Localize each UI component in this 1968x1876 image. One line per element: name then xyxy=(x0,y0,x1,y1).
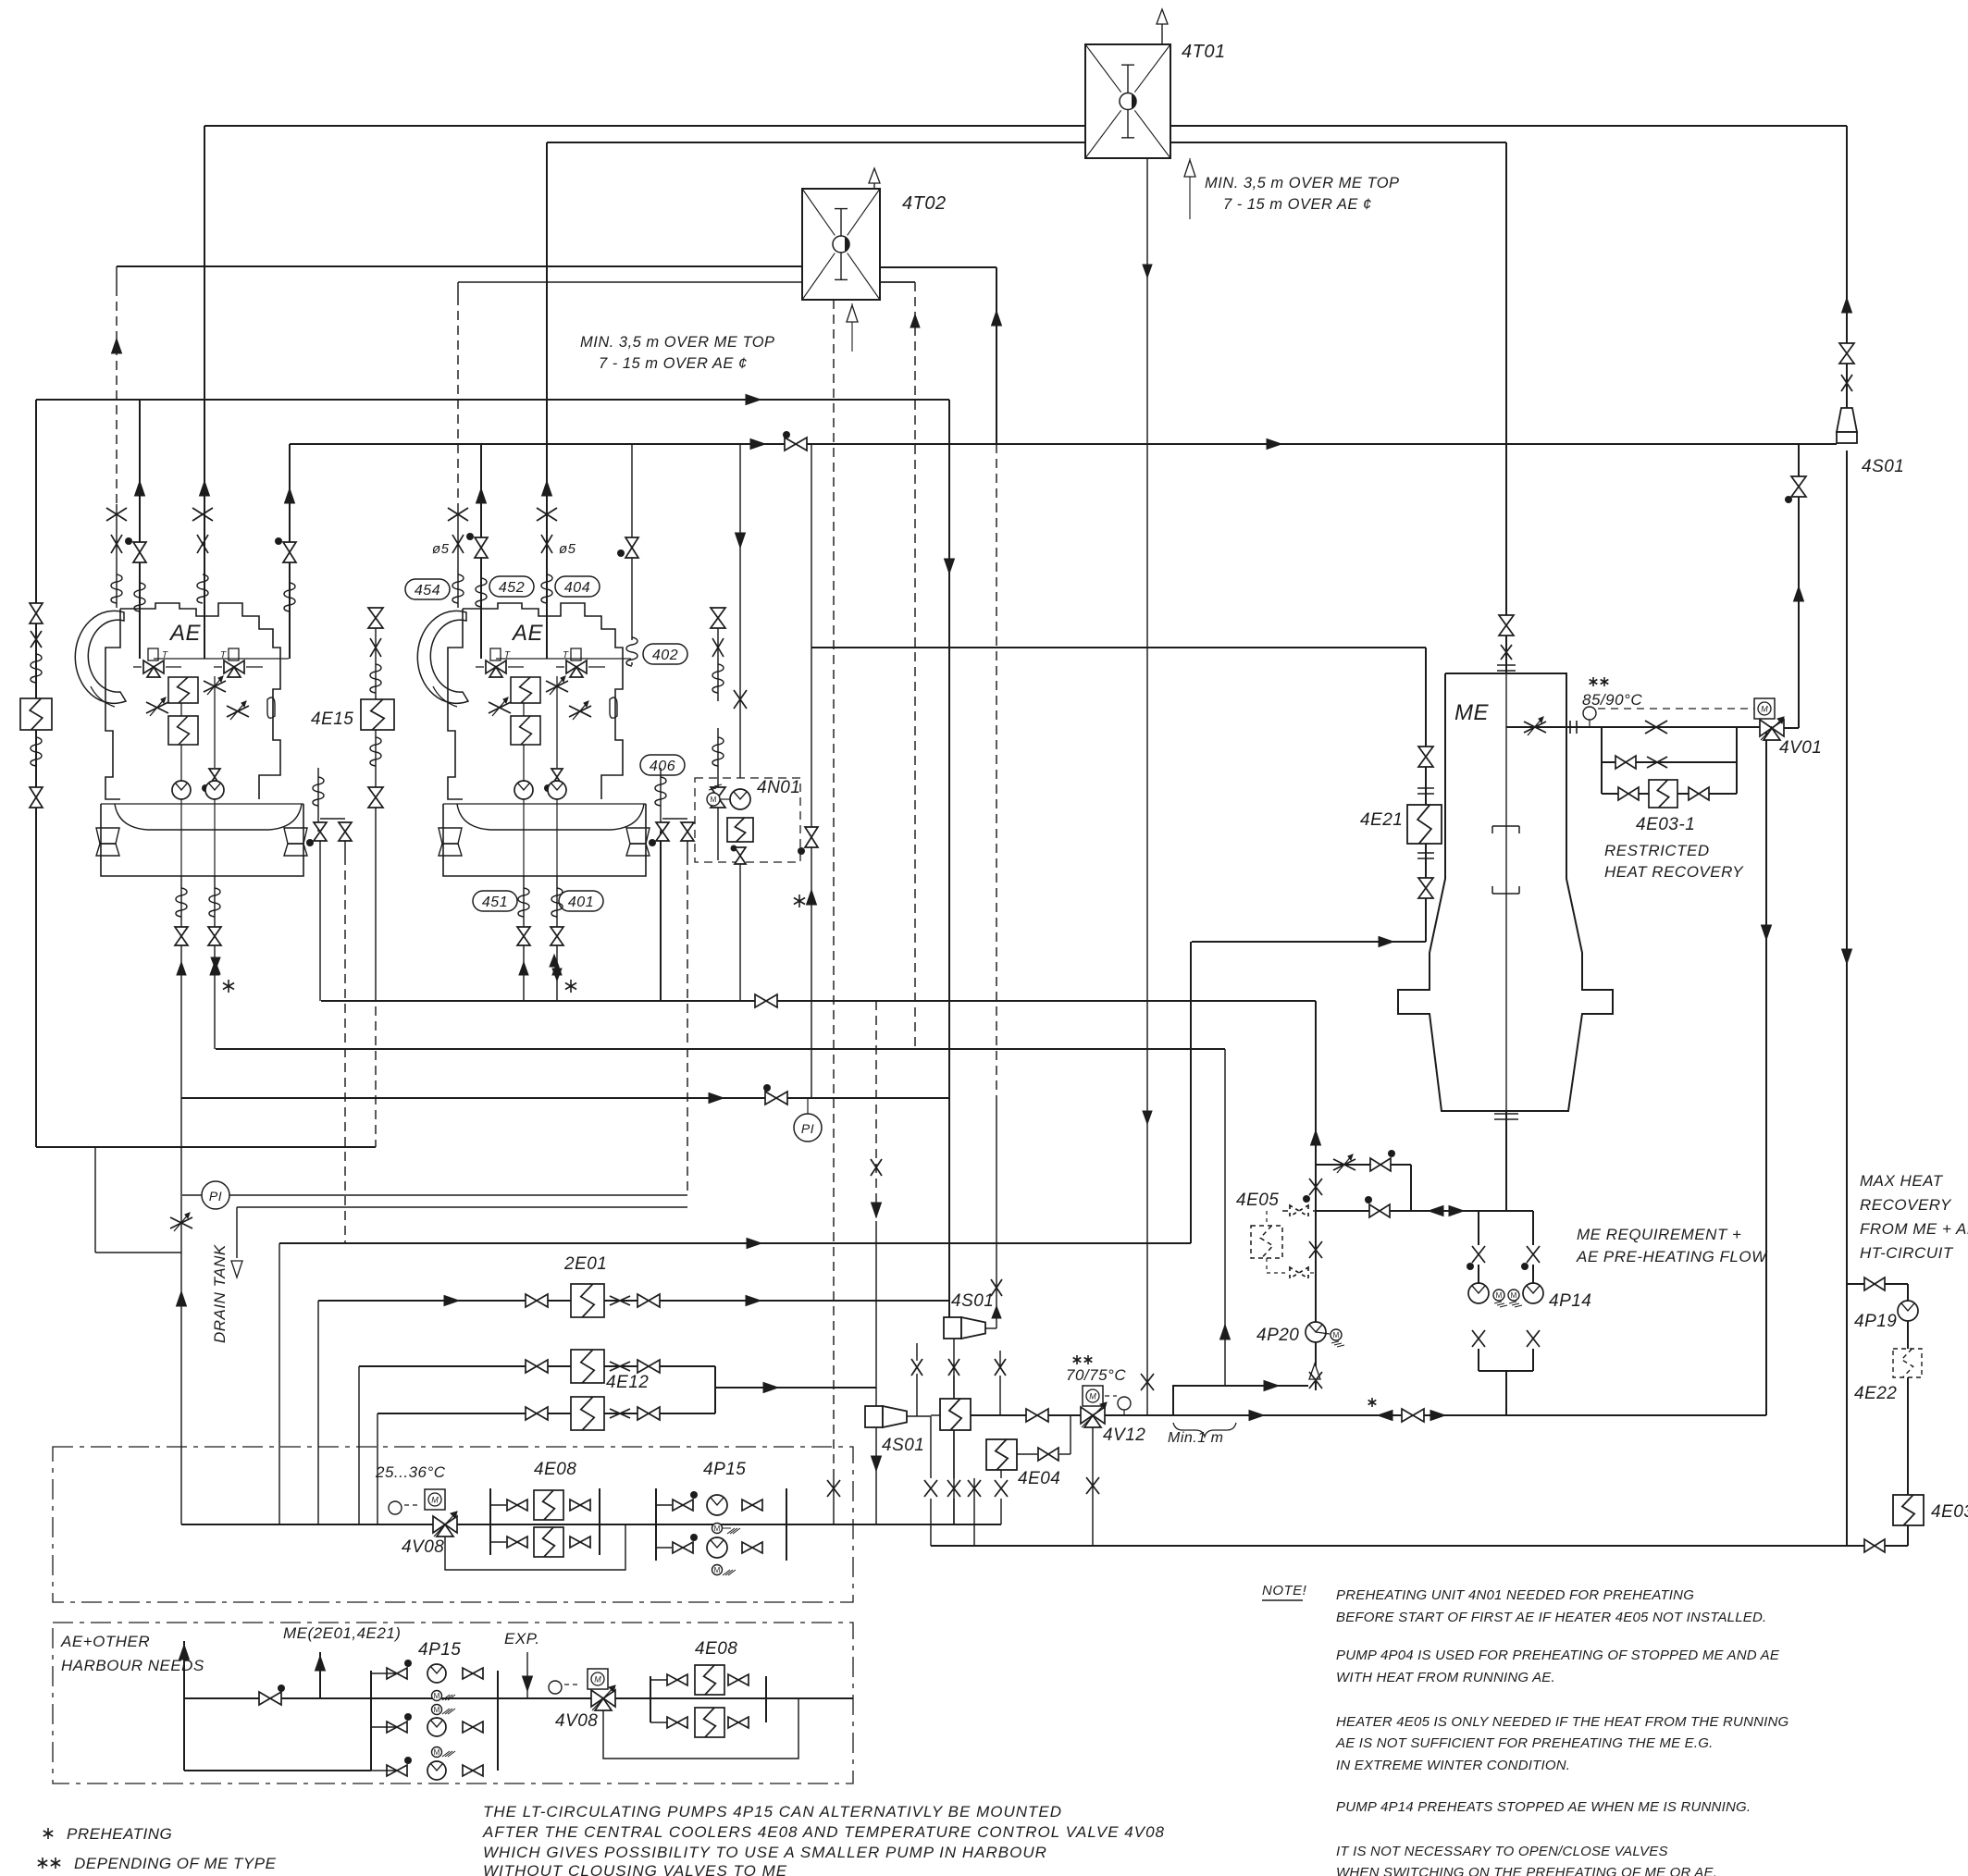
svg-text:ø5: ø5 xyxy=(432,541,450,557)
svg-text:M: M xyxy=(711,796,717,804)
valve pair AE1 preheat xyxy=(211,962,220,974)
AE internal valve xyxy=(209,769,220,777)
wire left drain L x=103 xyxy=(94,1147,96,1253)
svg-text:M: M xyxy=(1511,1291,1517,1300)
svg-text:ME REQUIREMENT +: ME REQUIREMENT + xyxy=(1577,1226,1742,1243)
three-way valve 4V08 xyxy=(433,1516,445,1533)
svg-text:4P19: 4P19 xyxy=(1854,1312,1897,1331)
valve 4E12 A inlet xyxy=(526,1360,537,1373)
separator 4S01 top xyxy=(1837,408,1857,432)
separator 4S01 low xyxy=(865,1405,883,1407)
svg-text:4E05: 4E05 xyxy=(1236,1191,1279,1210)
AE foot left xyxy=(96,828,119,844)
thermometer 4V08 xyxy=(389,1501,402,1514)
label 402 xyxy=(643,644,687,664)
AE internal pipes xyxy=(180,703,182,716)
wire drop x=344 to LT xyxy=(317,1301,319,1524)
svg-text:454: 454 xyxy=(415,583,440,599)
wire 4V01 drop x=1909 xyxy=(1765,728,1767,1415)
AE foot left xyxy=(439,828,462,844)
heat exchanger 4E03 xyxy=(1893,1495,1924,1525)
wire 4T02 bottom stub xyxy=(880,281,915,283)
svg-text:452: 452 xyxy=(499,580,525,596)
wire AE1 pump drain to LT x=196 xyxy=(180,946,182,1524)
valve AE1 fill x=126 xyxy=(106,508,127,521)
wire 4T02 fill drop x=989 (dashed) xyxy=(914,282,916,1049)
flow arrow step xyxy=(1264,1381,1279,1391)
svg-text:M: M xyxy=(1333,1331,1340,1339)
svg-text:4E08: 4E08 xyxy=(534,1460,576,1479)
svg-text:PREHEATING UNIT 4N01 NEEDED FO: PREHEATING UNIT 4N01 NEEDED FOR PREHEATI… xyxy=(1336,1587,1694,1603)
valve AE1 x=151 xyxy=(133,542,146,552)
bracket Min 1 m xyxy=(1173,1423,1236,1437)
separator 4S01 mid xyxy=(944,1316,961,1318)
4E05 dashed valves xyxy=(1290,1205,1308,1278)
svg-text:MIN. 3,5 m OVER ME TOP: MIN. 3,5 m OVER ME TOP xyxy=(580,334,775,351)
wire ME bypass drop x=1731 xyxy=(1601,727,1603,794)
svg-text:PREHEATING: PREHEATING xyxy=(67,1825,172,1843)
wire harbour rows xyxy=(371,1672,397,1674)
valve 2E01 line inlet xyxy=(526,1294,537,1307)
svg-text:4S01: 4S01 xyxy=(951,1291,994,1311)
svg-text:404: 404 xyxy=(564,580,590,596)
AE cooler lower xyxy=(511,716,540,745)
4P20 line valves xyxy=(1309,1179,1322,1195)
wire LT circulating line (y=1648) xyxy=(181,1524,1001,1525)
svg-text:4P20: 4P20 xyxy=(1256,1326,1299,1345)
svg-text:DRAIN TANK: DRAIN TANK xyxy=(211,1244,229,1343)
wire AE1 fill riser x=126 xyxy=(116,266,118,287)
wire ME crank line x=1628 xyxy=(1505,673,1507,1111)
thermometer harbour 4V08 xyxy=(549,1681,562,1694)
wire harbour 4V08 bypass xyxy=(603,1698,798,1759)
svg-text:FROM ME + AE: FROM ME + AE xyxy=(1860,1220,1968,1238)
wire AE2 vent riser x=589 xyxy=(546,142,548,659)
valve riser x=877 xyxy=(805,827,818,837)
preheat arrows AE1 xyxy=(211,957,220,969)
wire 4V01 riser x=1944 xyxy=(1798,444,1800,728)
4N01 valve xyxy=(731,845,737,852)
wire 4E15 drop x=406 xyxy=(375,608,377,701)
thermostat dashed line xyxy=(1598,708,1754,710)
pump 4P20 xyxy=(1306,1322,1326,1342)
label 401 xyxy=(559,891,603,911)
AE cooler upper xyxy=(511,677,540,703)
svg-text:4S01: 4S01 xyxy=(1862,457,1904,476)
svg-text:M: M xyxy=(1496,1291,1503,1300)
wire 4T01 fill drop x=1240 xyxy=(1146,158,1148,1415)
wire HT main supply header (y=432) xyxy=(36,399,949,401)
valve 4E12 B inlet xyxy=(526,1407,537,1420)
svg-text:M: M xyxy=(434,1706,440,1714)
wire 4V12 M stub xyxy=(1105,1395,1117,1397)
wire HT main header lower (y=480) xyxy=(290,443,1837,445)
EXP arrow xyxy=(526,1652,528,1698)
valve 4P19 branch xyxy=(1864,1277,1875,1290)
motor box harbour 4V08 xyxy=(588,1669,608,1689)
wire drain-tank line (y=1305) xyxy=(237,1206,687,1208)
flow arrows verticals xyxy=(112,339,122,353)
wire 4E12 line A (y=1477) xyxy=(359,1365,715,1367)
note 85/90 xyxy=(1590,680,1598,685)
hollow arrow 4P20 suction xyxy=(1309,1364,1320,1379)
wire ME vent x=1628 xyxy=(1505,142,1507,673)
wire 4E05 branch (y=1259) xyxy=(1316,1164,1411,1166)
svg-text:WITH HEAT FROM RUNNING AE.: WITH HEAT FROM RUNNING AE. xyxy=(1336,1670,1555,1685)
label 451 xyxy=(473,891,517,911)
wire AE2 bed valves xyxy=(660,768,662,832)
wire 4E12 merged line (y=1500) xyxy=(715,1387,876,1388)
ME shaft hash xyxy=(1494,1113,1518,1115)
4S01 mid outlet xyxy=(985,1327,996,1329)
svg-text:PI: PI xyxy=(209,1189,222,1203)
wire preheat drop x=901 (dashed) xyxy=(833,285,835,1478)
preheating unit 4N01 box xyxy=(695,778,800,862)
wire 4E03-1 bypass upper (y=824) xyxy=(1602,761,1737,763)
valve AE1 vent x=219 xyxy=(192,508,213,521)
svg-text:M: M xyxy=(434,1692,440,1700)
main engine ME outline xyxy=(1398,673,1613,1111)
ME outlet throttle xyxy=(1524,722,1546,733)
vent arrow 4T02 xyxy=(873,183,875,189)
preheat arrows AE2 xyxy=(550,955,559,967)
svg-text:7 - 15 m OVER AE ¢: 7 - 15 m OVER AE ¢ xyxy=(599,355,748,372)
svg-text:406: 406 xyxy=(650,759,675,774)
wire harbour bottom return (y=1914) xyxy=(184,1770,371,1771)
heat exchanger 4E12 A xyxy=(571,1350,604,1383)
bypass valves 4E03-1 upper xyxy=(1615,756,1626,769)
wire 4T02 balance line (y=288) xyxy=(117,265,802,267)
wire drop x=302 to LT xyxy=(278,1243,280,1524)
wire drain tank stub xyxy=(236,1207,238,1258)
motor box 4V12 xyxy=(1083,1386,1103,1406)
wire AE1 pump drains xyxy=(180,876,182,946)
wire 4V01 outlet xyxy=(1784,727,1799,729)
thermometer ME outlet xyxy=(1589,720,1590,727)
4N01 pump xyxy=(730,789,750,809)
three-way valve 4V12 xyxy=(1081,1407,1093,1424)
AE cooler upper xyxy=(168,677,198,703)
svg-text:MIN. 3,5 m OVER ME TOP: MIN. 3,5 m OVER ME TOP xyxy=(1205,175,1400,191)
AE pump 2 xyxy=(548,781,566,799)
svg-text:4V08: 4V08 xyxy=(402,1537,444,1557)
svg-text:WHEN SWITCHING ON THE PREHEATI: WHEN SWITCHING ON THE PREHEATING OF ME O… xyxy=(1336,1865,1717,1876)
wire AE1 riser x=313 xyxy=(289,444,291,659)
instrument PI left xyxy=(202,1181,229,1209)
heat exchanger 4E22 dashed xyxy=(1893,1349,1922,1377)
svg-text:RESTRICTED: RESTRICTED xyxy=(1604,842,1710,859)
svg-text:4E12: 4E12 xyxy=(606,1373,649,1392)
valve 4E04 lower out xyxy=(1038,1448,1048,1461)
valve HT return mid xyxy=(1368,1401,1377,1405)
instrument PI mid xyxy=(807,1098,809,1114)
svg-text:4S01: 4S01 xyxy=(882,1436,924,1455)
wire 4P20 riser x=1422 xyxy=(1315,1001,1317,1390)
svg-text:AE+OTHER: AE+OTHER xyxy=(60,1633,150,1650)
svg-text:4T02: 4T02 xyxy=(902,193,947,214)
svg-text:4E21: 4E21 xyxy=(1360,810,1403,830)
wire AE2 bed drain x=743 xyxy=(687,839,688,856)
wire 4S01 drain x=1031 xyxy=(953,1339,955,1524)
AE cooler lower xyxy=(168,716,198,745)
wire 4E04 ports xyxy=(930,1416,932,1478)
orifice xyxy=(1569,721,1571,734)
wire AE drain header (y=1240) xyxy=(36,1146,376,1148)
svg-text:M: M xyxy=(434,1748,440,1757)
valves row above LT xyxy=(911,1359,922,1376)
svg-text:M: M xyxy=(1089,1392,1096,1401)
svg-text:402: 402 xyxy=(652,648,678,663)
AE foot right xyxy=(284,828,307,844)
AE bed frame xyxy=(101,804,303,876)
valve 4T01 fill xyxy=(1141,1374,1154,1390)
AE thermostat valve 2 xyxy=(566,660,576,673)
wire ME requirement drop x=1287 xyxy=(1190,942,1192,1243)
4S01 vent valves xyxy=(1839,343,1854,353)
valve 4E05 branch xyxy=(1370,1158,1380,1171)
4N01 inlet valve xyxy=(734,690,747,709)
svg-text:M: M xyxy=(714,1524,721,1533)
svg-text:WITHOUT CLOUSING VALVES TO ME: WITHOUT CLOUSING VALVES TO ME xyxy=(483,1862,787,1876)
svg-text:70/75°C: 70/75°C xyxy=(1066,1366,1126,1384)
valve AE2 fill x=495 xyxy=(448,508,468,521)
wire 4P14 suction (y=1309) xyxy=(1282,1210,1316,1212)
valve AE2 vent x=589 xyxy=(537,508,557,521)
wire LT supply header (y=1344) xyxy=(279,1242,1191,1244)
wire header with PI (y=1187) xyxy=(181,1097,949,1099)
coolers 4E08 harbour xyxy=(650,1676,651,1722)
AE pump 1 xyxy=(514,781,533,799)
svg-text:4N01: 4N01 xyxy=(757,778,800,797)
svg-text:EXP.: EXP. xyxy=(504,1630,540,1648)
wire riser x=877 xyxy=(811,444,812,1098)
level mark under 4T02 xyxy=(851,303,853,352)
svg-text:4T01: 4T01 xyxy=(1182,42,1226,62)
AE internal manifold xyxy=(496,658,631,660)
heat exchanger 4E04 lower xyxy=(986,1439,1017,1470)
AE hook xyxy=(610,697,617,718)
svg-text:4P15: 4P15 xyxy=(703,1460,746,1479)
wire 4E21 drop x=1541 xyxy=(1425,648,1427,942)
svg-text:AE: AE xyxy=(511,621,544,646)
svg-text:4E03-1: 4E03-1 xyxy=(1636,815,1695,834)
svg-text:BEFORE START OF FIRST AE IF HE: BEFORE START OF FIRST AE IF HEATER 4E05 … xyxy=(1336,1610,1766,1625)
valves 4E12 A outlet xyxy=(610,1362,630,1371)
heat exchanger 4E21 xyxy=(1407,805,1442,844)
valve train AE2 recovery line x=776 xyxy=(711,608,725,618)
level mark under 4T01 xyxy=(1189,158,1191,219)
svg-text:4E22: 4E22 xyxy=(1854,1384,1897,1403)
wire AE HT outlet to 4E21 (y=700) xyxy=(811,647,1426,648)
drain tank arrow xyxy=(231,1261,242,1277)
coolers 4E08 xyxy=(489,1488,491,1555)
thermometer 4V12 xyxy=(1123,1410,1125,1415)
svg-text:HEAT RECOVERY: HEAT RECOVERY xyxy=(1604,863,1744,881)
wire ME outlet (y=786) xyxy=(1506,726,1772,728)
valve harbour line xyxy=(259,1692,270,1705)
wire 2E01 line (y=1406) xyxy=(318,1300,948,1302)
motor box 4V01 xyxy=(1754,698,1775,719)
heat exchanger 4E12 B xyxy=(571,1397,604,1430)
wire harbour line (y=1836) xyxy=(184,1697,853,1699)
wire 4E03-1 bypass lower (y=858) xyxy=(1602,793,1737,795)
AE internal manifold xyxy=(154,658,289,660)
AE engine outline xyxy=(417,611,468,703)
wire 4T02 fill line (y=305) xyxy=(458,281,915,283)
valves 4E12 B outlet xyxy=(610,1409,630,1418)
heat exchanger 4E04 upper xyxy=(940,1399,971,1430)
pumps 4P15 xyxy=(655,1488,657,1561)
svg-text:DEPENDING OF ME TYPE: DEPENDING OF ME TYPE xyxy=(74,1855,277,1872)
svg-text:Min.1 m: Min.1 m xyxy=(1168,1430,1223,1446)
note preheating legend xyxy=(43,1831,53,1836)
svg-text:RECOVERY: RECOVERY xyxy=(1860,1196,1952,1214)
wire 4P14 manifold xyxy=(1478,1211,1479,1245)
svg-text:25...36°C: 25...36°C xyxy=(375,1463,446,1481)
svg-text:M: M xyxy=(594,1675,601,1685)
svg-text:401: 401 xyxy=(568,895,594,910)
svg-text:M: M xyxy=(431,1496,439,1505)
svg-text:4V01: 4V01 xyxy=(1779,738,1822,758)
AE bed frame xyxy=(443,804,646,876)
wire 4E12 line B (y=1528) xyxy=(378,1413,715,1414)
wire preheat header (y=1134) xyxy=(216,1048,1225,1050)
valves 2E01 outlet xyxy=(610,1296,630,1305)
wire 4S01 vent x=947 (dashed) xyxy=(875,1001,877,1221)
svg-text:PUMP 4P14 PREHEATS STOPPED AE: PUMP 4P14 PREHEATS STOPPED AE WHEN ME IS… xyxy=(1336,1799,1751,1815)
svg-text:IN EXTREME WINTER CONDITION.: IN EXTREME WINTER CONDITION. xyxy=(1336,1758,1570,1773)
svg-text:4E15: 4E15 xyxy=(311,710,353,729)
three-way valve 4V01 xyxy=(1760,720,1772,736)
wire HT recovery drop x=1996 xyxy=(1846,126,1848,408)
wire AE1 bed valves xyxy=(317,768,319,832)
throttle 4E05 branch xyxy=(1333,1159,1355,1170)
AE throttle valves xyxy=(146,702,168,713)
svg-text:4V08: 4V08 xyxy=(555,1711,598,1731)
valve header y1082 xyxy=(755,994,766,1007)
4S01 low outlet xyxy=(907,1415,931,1417)
svg-text:THE LT-CIRCULATING PUMPS 4P15: THE LT-CIRCULATING PUMPS 4P15 CAN ALTERN… xyxy=(483,1803,1062,1820)
wire drop x=388 to LT xyxy=(358,1366,360,1524)
expansion tank 4T02 xyxy=(802,189,880,300)
svg-text:PUMP 4P04 IS USED FOR PREHEATI: PUMP 4P04 IS USED FOR PREHEATING OF STOP… xyxy=(1336,1648,1780,1663)
valve 4P14 suction xyxy=(1369,1204,1380,1217)
wire preheat drop x=1324 xyxy=(1224,1049,1226,1386)
pumps 4P14 xyxy=(1472,1246,1485,1263)
AE internal pipes xyxy=(523,703,525,716)
wire AE1 bed drain x=346 xyxy=(319,839,321,1001)
bypass 4E03-1 heat exchanger xyxy=(1618,787,1628,800)
pumps 4P15 harbour xyxy=(370,1671,372,1771)
wire LT return bottom (y=1678) xyxy=(931,1545,1908,1547)
label 406 xyxy=(640,755,685,775)
AE hook xyxy=(267,697,275,718)
label 452 xyxy=(489,576,534,597)
valve on HT return near 4E04 xyxy=(1026,1409,1037,1422)
pump 4P19 xyxy=(1898,1301,1918,1321)
4N01 heater xyxy=(727,818,753,842)
svg-text:AE: AE xyxy=(168,621,202,646)
svg-text:M: M xyxy=(1761,705,1768,714)
svg-text:4P15: 4P15 xyxy=(418,1640,461,1660)
svg-text:4E04: 4E04 xyxy=(1018,1469,1060,1488)
svg-text:ME(2E01,4E21): ME(2E01,4E21) xyxy=(283,1624,401,1642)
AE internal valve xyxy=(551,769,563,777)
valve 4V01 riser xyxy=(1791,476,1806,487)
wire 4V08 bypass xyxy=(445,1524,625,1570)
valve AE2 x=520 xyxy=(475,537,488,548)
wire drop x=408 to LT xyxy=(377,1413,378,1524)
wire AE2 riser x=683 xyxy=(631,444,633,640)
svg-text:AFTER THE CENTRAL COOLERS 4E08: AFTER THE CENTRAL COOLERS 4E08 AND TEMPE… xyxy=(482,1823,1165,1841)
AE throttle valves xyxy=(489,702,511,713)
svg-text:4P14: 4P14 xyxy=(1549,1291,1591,1311)
heat exchanger 4E15 xyxy=(361,699,394,730)
label 454 xyxy=(405,579,450,599)
AE pump 2 xyxy=(205,781,224,799)
motor box 4V08 xyxy=(425,1489,445,1510)
svg-text:4E08: 4E08 xyxy=(695,1639,737,1659)
svg-text:4V12: 4V12 xyxy=(1103,1426,1145,1445)
svg-text:M: M xyxy=(714,1566,721,1574)
heat exchanger 2E01 xyxy=(571,1284,604,1317)
LT circuit dashed box xyxy=(53,1447,853,1602)
wire AE2 heat recovery drop x=776 xyxy=(717,608,719,701)
wire 4P19 branch xyxy=(1847,1283,1908,1285)
svg-text:AE IS NOT SUFFICIENT FOR PREHE: AE IS NOT SUFFICIENT FOR PREHEATING THE … xyxy=(1335,1735,1714,1751)
valve x=901 to LT xyxy=(827,1480,840,1497)
wire header (y=1292) xyxy=(182,1194,687,1196)
note 70/75 xyxy=(1073,1358,1082,1363)
svg-text:2E01: 2E01 xyxy=(563,1254,607,1274)
valve 4S01 vent x=1077 xyxy=(991,1279,1002,1296)
wire 4P20 suction step (y=1498) xyxy=(1173,1386,1308,1415)
svg-text:ME: ME xyxy=(1454,700,1489,725)
wire left riser x=39 xyxy=(35,400,37,1147)
AE pump 1 xyxy=(172,781,191,799)
svg-text:NOTE!: NOTE! xyxy=(1262,1583,1307,1598)
wire AE1 vent riser x=219 xyxy=(204,126,205,659)
AE foot right xyxy=(626,828,650,844)
svg-text:85/90°C: 85/90°C xyxy=(1582,691,1642,709)
svg-text:451: 451 xyxy=(482,895,508,910)
wire vent drop x=1026 xyxy=(948,400,950,1317)
svg-text:MAX HEAT: MAX HEAT xyxy=(1860,1172,1944,1190)
AE thermostat valve 1 xyxy=(143,660,154,673)
4E21 valves xyxy=(1418,747,1433,757)
flow arrows headers xyxy=(746,395,761,405)
wire 4E21 return (y=1018) xyxy=(1192,941,1426,943)
svg-text:7 - 15 m OVER AE ¢: 7 - 15 m OVER AE ¢ xyxy=(1223,196,1372,213)
vent arrow 4T01 xyxy=(1161,24,1163,44)
ME vent valves xyxy=(1499,615,1514,625)
svg-text:WHICH GIVES POSSIBILITY TO USE: WHICH GIVES POSSIBILITY TO USE A SMALLER… xyxy=(483,1844,1047,1861)
wire AE1 bed drain x=373 (dashed) xyxy=(344,839,346,856)
wire HT return main (y=1530) xyxy=(970,1414,1766,1416)
svg-text:4E03: 4E03 xyxy=(1931,1502,1968,1522)
AE engine outline xyxy=(75,611,126,703)
heater 4E05 dashed xyxy=(1251,1226,1282,1258)
wire preheat header (y=1082) xyxy=(321,1000,1316,1002)
three-way valve harbour 4V08 xyxy=(591,1690,603,1707)
bottom manifold valves xyxy=(924,1480,937,1497)
wire 4P20 line segments xyxy=(1315,1128,1317,1177)
wire HT vent header to ME (y=154) xyxy=(547,142,1506,143)
label 404 xyxy=(555,576,600,597)
valve 4P20 discharge xyxy=(1309,1372,1322,1388)
AE thermostat valve 1 xyxy=(486,660,496,673)
valve bottom right xyxy=(1864,1539,1875,1552)
